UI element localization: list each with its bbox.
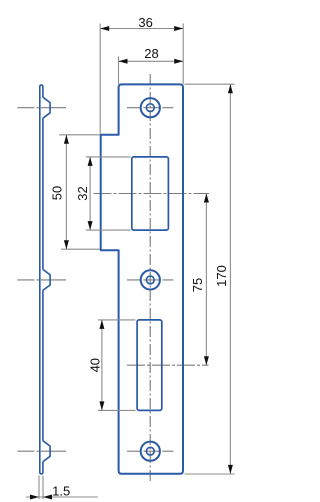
side view axis line bottom [17, 450, 66, 452]
side view dimple bottom [43, 441, 50, 462]
dimension 1.5 line [26, 496, 98, 498]
dimension 32 extension line bottom [86, 229, 131, 231]
dimension 32 extension line top [86, 156, 131, 158]
front view centerline vertical [149, 74, 151, 482]
dimension 170 arrow top [228, 84, 233, 93]
dimension 75 arrow top [204, 194, 209, 203]
dimension 28 arrow right [174, 59, 183, 64]
side view right face segment 2 [42, 290, 44, 440]
dimension 40 extension line top [98, 319, 135, 321]
dimension 28 arrow left [119, 59, 128, 64]
svg-text:32: 32 [75, 186, 90, 200]
side view plate left face and end caps [40, 85, 43, 474]
dimension 36/28 extension line right [182, 24, 184, 85]
hole middle outer [141, 270, 160, 289]
hole top inner [146, 104, 154, 112]
svg-text:170: 170 [214, 265, 229, 287]
dimension 170 line [229, 84, 231, 474]
svg-text:75: 75 [190, 278, 205, 292]
dimension 32 arrow bottom [88, 221, 93, 230]
dimension 28 extension line left [118, 56, 120, 84]
dimension 28 line [119, 60, 184, 62]
cutout 2 centerline horizontal [127, 364, 209, 366]
svg-text:28: 28 [144, 46, 158, 61]
dimension 40 line [101, 320, 103, 411]
dimension 40 arrow top [99, 320, 104, 329]
hole top centerline horizontal [127, 107, 173, 109]
hole middle inner [146, 276, 154, 284]
side view axis line top [17, 107, 66, 109]
dimension 50 extension line bottom [61, 248, 100, 250]
dimension 50 arrow top [64, 135, 69, 144]
dimension 36 arrow left [100, 26, 109, 31]
dimension 36 line [100, 28, 183, 30]
dimension 40 extension line bottom [98, 409, 135, 411]
cutout 1 centerline horizontal [94, 193, 210, 195]
side view axis line middle [17, 279, 66, 281]
dimension 1.5 arrow right [43, 495, 52, 500]
hole bottom outer [141, 442, 160, 461]
dimension 170 arrow bottom [228, 465, 233, 474]
dimension 36 extension line left [99, 24, 101, 135]
dimension 50 extension line top [59, 134, 100, 136]
dimension 75 arrow bottom [204, 356, 209, 365]
hole middle centerline horizontal [127, 279, 173, 281]
hole bottom centerline horizontal [127, 450, 173, 452]
front view plate outline [101, 84, 183, 473]
dimension 170 extension line top [185, 83, 235, 85]
side view dimple middle [43, 269, 50, 290]
svg-text:50: 50 [50, 186, 65, 200]
svg-text:36: 36 [138, 15, 152, 30]
hole bottom inner [146, 447, 154, 455]
side view right face segment 1 [42, 118, 44, 269]
hole top outer [141, 98, 160, 117]
dimension 170 extension line bottom [185, 473, 235, 475]
dimension 32 arrow top [88, 157, 93, 166]
svg-text:40: 40 [87, 358, 102, 372]
dimension 1.5 extension line left [38, 476, 40, 500]
dimension 40 arrow bottom [99, 401, 104, 410]
dimension 36 arrow right [174, 26, 183, 31]
dimension 1.5 extension line right [42, 476, 44, 500]
side view dimple top [43, 97, 50, 118]
cutout 1 (latch opening) [132, 157, 169, 230]
svg-text:1.5: 1.5 [52, 484, 70, 499]
dimension 1.5 arrow left [30, 495, 39, 500]
cutout 2 (deadbolt opening) [137, 320, 162, 411]
dimension 75 line [205, 194, 207, 366]
dimension 50 line [65, 135, 67, 249]
dimension 50 arrow bottom [64, 240, 69, 249]
dimension 32 line [89, 157, 91, 230]
